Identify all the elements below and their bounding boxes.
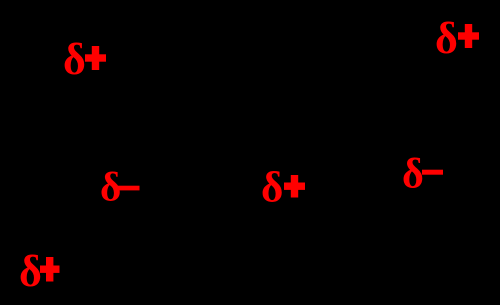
svg-text:δ: δ [19,247,42,296]
partial charge label delta-plus (central hydrogen-bond hydrogen) [261,164,305,211]
partial charge label delta-plus (top-right hydrogen) [435,14,479,63]
svg-text:δ: δ [402,152,424,198]
svg-text:δ: δ [261,164,283,211]
partial charge label delta-minus (left oxygen) [100,164,140,210]
partial charge label delta-plus (bottom-left hydrogen) [19,247,60,296]
partial charge label delta-minus (right oxygen) [402,152,443,198]
svg-text:δ: δ [435,14,458,63]
svg-text:δ: δ [63,35,86,84]
partial charge label delta-plus (top-left hydrogen) [63,35,106,84]
